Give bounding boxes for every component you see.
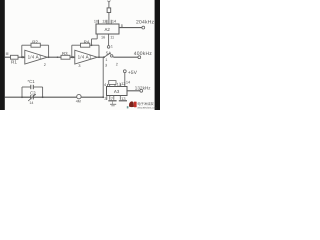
svg-text:11: 11 <box>110 36 114 40</box>
pin 12 stub A3 top <box>120 84 122 87</box>
wire feedback top left op2 <box>72 44 81 46</box>
svg-text:C2: C2 <box>30 90 36 95</box>
svg-text:4M: 4M <box>76 100 81 104</box>
svg-text:3: 3 <box>78 64 80 68</box>
node feedback R4 tap <box>91 44 93 46</box>
artifact dot <box>127 106 129 108</box>
svg-text:R4: R4 <box>84 39 90 44</box>
wire C2 to crystal <box>33 96 76 98</box>
crystal B lead lower <box>108 13 110 24</box>
component box on A3 top <box>109 81 116 87</box>
resistor R3 <box>61 51 70 59</box>
wire +5V down to A3 pin14 <box>124 73 126 87</box>
op-amp U1b triangle <box>75 50 98 68</box>
red watermark logo <box>129 101 137 107</box>
pin 4 stub A3 top <box>107 84 109 87</box>
wire input from left bar <box>5 56 11 58</box>
node op1 output <box>48 56 50 58</box>
wire C block right vertical <box>42 87 44 97</box>
svg-text:132kHz: 132kHz <box>135 85 152 90</box>
svg-text:R1: R1 <box>11 60 17 65</box>
switch contact circle upper <box>107 46 110 49</box>
wire long vertical switch to bottom net <box>102 57 104 97</box>
wire feedback right vertical op2 <box>98 45 100 57</box>
svg-text:电子发烧友: 电子发烧友 <box>137 102 154 106</box>
IC A2 <box>96 24 119 34</box>
wire C1 branch right <box>33 86 42 88</box>
node mid junction <box>57 56 59 58</box>
terminal 400kHz <box>138 56 141 59</box>
svg-text:1/4 A1: 1/4 A1 <box>78 54 92 59</box>
wire feedback top right op1 <box>40 44 48 46</box>
arrow into op2 <box>73 56 76 59</box>
svg-text:R2: R2 <box>32 39 38 44</box>
resistor R2 <box>31 39 40 47</box>
ground rail under pins 7 and 13 <box>108 100 127 102</box>
svg-text:1: 1 <box>105 58 107 62</box>
wire feedback top left op1 <box>22 44 31 46</box>
wire A2 pin11 down to contact <box>108 34 110 46</box>
IC A3 <box>107 87 128 96</box>
switch contact circle lower <box>111 55 113 57</box>
wire feedback right vertical op1 <box>48 45 50 57</box>
node input junction <box>21 56 23 58</box>
crystal B1 circle <box>76 94 81 103</box>
svg-text:16: 16 <box>101 35 105 39</box>
wire R3 to op2 <box>70 56 75 58</box>
pin 14 stub A2 <box>110 20 112 24</box>
wire R1 to op-amp input node <box>18 56 25 58</box>
arrow into op1 <box>23 56 26 59</box>
terminal 204kHz <box>142 26 145 29</box>
node op2 input junction <box>71 56 73 58</box>
wire crystal to vertical net <box>81 96 103 98</box>
pin 10 stub A2 <box>98 20 100 24</box>
wire A2 pin9 stub down <box>96 34 98 39</box>
svg-text:R3: R3 <box>62 51 68 56</box>
terminal 132kHz <box>140 89 143 92</box>
svg-text:www.elecfans.com: www.elecfans.com <box>137 106 156 109</box>
svg-text:3: 3 <box>105 63 107 67</box>
wire C block left vertical <box>21 87 23 97</box>
wire A2 pin8 <box>119 27 142 29</box>
terminal +5V <box>123 70 126 73</box>
svg-text:1/4 A1: 1/4 A1 <box>28 54 42 59</box>
wire C1 branch left <box>22 86 31 88</box>
op-amp U1a triangle <box>25 50 48 67</box>
wire into C2 <box>22 96 31 98</box>
capacitor C1 <box>27 79 35 89</box>
svg-text:SA: SA <box>106 50 112 55</box>
resistor R4 <box>81 39 90 47</box>
pin 3 stub A3 bottom <box>106 96 108 100</box>
pin 13 stub A3 bottom <box>119 96 121 100</box>
node op2 output <box>98 56 100 58</box>
wire feedback left vertical op2 <box>71 45 73 57</box>
node C block left <box>21 96 23 98</box>
svg-text:*C1: *C1 <box>27 79 35 84</box>
capacitor C2 variable <box>28 90 36 105</box>
smudge left margin <box>6 52 9 55</box>
wire A2 pin9 down to feedback node <box>91 39 93 45</box>
switch SA lever <box>104 50 111 57</box>
svg-text:204kHz: 204kHz <box>136 20 154 26</box>
wire feedback top right op2 <box>90 44 99 46</box>
svg-text:1: 1 <box>111 45 113 49</box>
resistor R1 <box>11 55 19 64</box>
svg-text:A2: A2 <box>105 27 111 32</box>
red watermark text <box>137 102 156 110</box>
crystal B body <box>107 8 111 13</box>
ground <box>110 101 116 106</box>
wire A3 output pin <box>127 90 140 92</box>
crystal B lead upper <box>108 2 110 8</box>
svg-text:12: 12 <box>121 81 125 86</box>
svg-text:14: 14 <box>29 101 33 105</box>
svg-text:8: 8 <box>121 24 123 28</box>
bottom wire from left bar <box>5 96 23 98</box>
right page edge black bar <box>155 0 160 110</box>
svg-text:A3: A3 <box>114 89 120 94</box>
svg-text:400kHz: 400kHz <box>134 51 152 57</box>
node switch pole <box>103 56 105 58</box>
svg-text:3: 3 <box>104 96 106 101</box>
svg-text:13: 13 <box>102 20 106 24</box>
svg-text:2: 2 <box>116 62 118 66</box>
wire op1 output to R3 <box>47 56 61 58</box>
label B tick <box>108 1 111 3</box>
node bottom net junction <box>102 96 104 98</box>
svg-text:+5V: +5V <box>128 70 138 76</box>
svg-text:2: 2 <box>44 63 46 67</box>
pin 13 stub A2 <box>106 20 108 24</box>
svg-text:10: 10 <box>94 20 98 24</box>
left page edge black bar <box>0 0 5 110</box>
svg-text:14: 14 <box>112 20 116 24</box>
wire feedback left vertical op1 <box>21 45 23 57</box>
wire op2 output to switch pole <box>97 56 104 58</box>
node C block right <box>42 96 44 98</box>
wire switch to 400kHz terminal <box>112 56 115 59</box>
pin 7 stubs A3 bottom <box>109 96 111 100</box>
wire A2 pin9 left <box>92 38 98 40</box>
